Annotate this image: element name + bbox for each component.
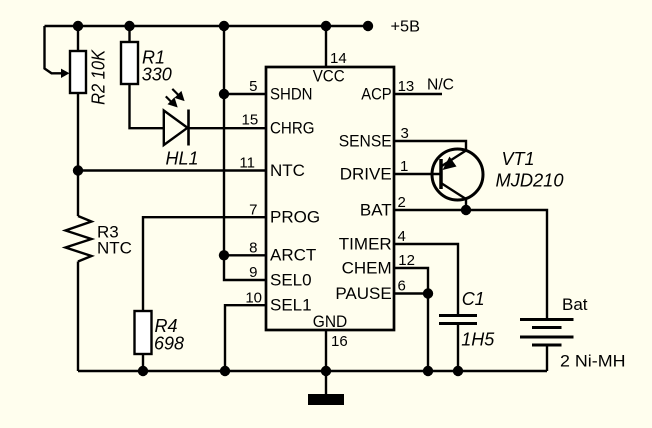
svg-text:VCC: VCC xyxy=(313,67,345,86)
svg-text:CHRG: CHRG xyxy=(270,119,315,138)
svg-text:CHEM: CHEM xyxy=(342,258,392,277)
svg-text:SHDN: SHDN xyxy=(270,84,313,103)
svg-text:NTC: NTC xyxy=(97,238,132,257)
svg-text:BAT: BAT xyxy=(360,200,392,219)
svg-text:SEL1: SEL1 xyxy=(270,296,312,315)
svg-text:15: 15 xyxy=(242,112,259,129)
svg-text:SENSE: SENSE xyxy=(339,131,392,150)
svg-text:ARCT: ARCT xyxy=(270,246,316,265)
svg-text:5: 5 xyxy=(249,78,257,95)
svg-text:16: 16 xyxy=(331,333,348,350)
svg-text:PAUSE: PAUSE xyxy=(335,284,391,303)
svg-text:14: 14 xyxy=(330,50,347,67)
svg-text:11: 11 xyxy=(239,155,255,172)
svg-text:GND: GND xyxy=(313,312,348,331)
svg-text:HL1: HL1 xyxy=(166,148,199,168)
svg-text:9: 9 xyxy=(249,264,257,281)
svg-text:330: 330 xyxy=(142,64,172,84)
svg-text:1H5: 1H5 xyxy=(461,330,495,350)
svg-text:SEL0: SEL0 xyxy=(270,270,312,289)
svg-text:12: 12 xyxy=(398,252,415,269)
svg-text:2 Ni-MH: 2 Ni-MH xyxy=(560,352,626,371)
svg-text:ACP: ACP xyxy=(361,84,392,103)
svg-text:4: 4 xyxy=(398,228,406,245)
svg-text:13: 13 xyxy=(398,78,415,95)
svg-text:1: 1 xyxy=(400,158,408,175)
svg-text:DRIVE: DRIVE xyxy=(340,164,392,183)
svg-text:8: 8 xyxy=(249,240,257,257)
svg-text:MJD210: MJD210 xyxy=(496,170,564,190)
svg-text:VT1: VT1 xyxy=(502,149,535,169)
svg-text:C1: C1 xyxy=(462,289,485,309)
svg-text:N/C: N/C xyxy=(427,76,454,93)
svg-text:TIMER: TIMER xyxy=(339,234,392,253)
svg-text:2: 2 xyxy=(398,194,406,211)
svg-text:6: 6 xyxy=(398,278,406,295)
svg-text:698: 698 xyxy=(154,334,184,354)
svg-text:10: 10 xyxy=(245,289,262,306)
svg-text:3: 3 xyxy=(401,125,409,142)
svg-text:PROG: PROG xyxy=(270,208,320,227)
svg-text:NTC: NTC xyxy=(270,161,305,180)
svg-text:+5B: +5B xyxy=(391,19,421,36)
svg-text:7: 7 xyxy=(249,201,257,218)
svg-text:Bat: Bat xyxy=(562,295,588,314)
svg-text:R2 10K: R2 10K xyxy=(89,49,109,105)
